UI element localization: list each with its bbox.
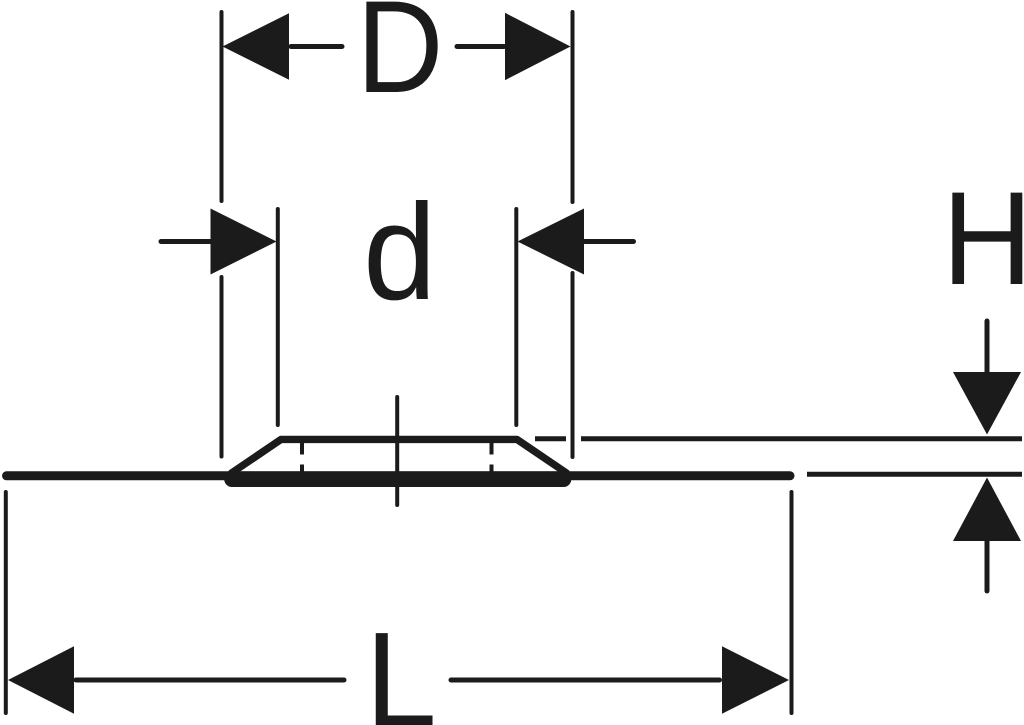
collar base band (thick section under raised collar) [232, 471, 564, 487]
L arrow left [8, 646, 74, 714]
D arrow right [505, 13, 571, 80]
raised collar outline (trapezoid) [232, 439, 567, 473]
D arrow left [223, 13, 290, 80]
H leader bottom [985, 541, 990, 591]
hidden hole edge left (dashed) [300, 443, 304, 472]
d arrow right [518, 209, 585, 275]
H leader top [985, 321, 990, 372]
d arrow left [211, 209, 277, 275]
L arrow right [722, 646, 789, 714]
H arrow down [953, 372, 1021, 435]
D leader right [457, 44, 504, 49]
D leader left [291, 44, 342, 49]
centerline through collar [395, 397, 399, 505]
L dimension line left [76, 678, 344, 683]
H reference line top (collar top level) [535, 436, 1022, 441]
svg-text:d: d [363, 176, 436, 329]
svg-text:H: H [942, 165, 1024, 313]
L extension line left [4, 492, 8, 713]
d extension line right [514, 209, 518, 425]
L extension line right [790, 492, 794, 713]
hidden hole edge right (dashed) [490, 443, 494, 472]
H arrow up [953, 478, 1021, 542]
D extension line left [220, 12, 224, 457]
H reference line bottom (plate top level) [807, 472, 1022, 477]
d extension line left [276, 209, 280, 425]
svg-text:L: L [365, 604, 437, 725]
d leader left [161, 239, 212, 244]
flange plate (side view, full length L) [7, 471, 791, 480]
d leader right [584, 239, 634, 244]
L dimension line right [451, 678, 720, 683]
D extension line right [571, 12, 575, 457]
svg-text:D: D [357, 0, 444, 120]
